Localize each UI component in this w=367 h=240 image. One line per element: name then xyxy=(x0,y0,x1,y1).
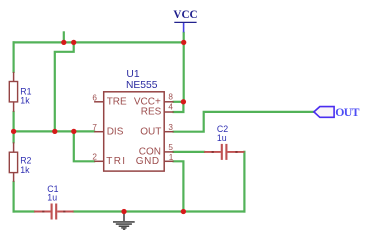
svg-text:DIS: DIS xyxy=(107,126,124,137)
svg-text:NE555: NE555 xyxy=(126,80,158,91)
svg-text:4: 4 xyxy=(168,103,173,112)
svg-text:1k: 1k xyxy=(20,95,30,105)
svg-text:3: 3 xyxy=(168,123,173,132)
svg-text:1k: 1k xyxy=(20,165,30,175)
svg-text:TRI: TRI xyxy=(106,156,126,167)
svg-text:GND: GND xyxy=(136,156,160,167)
svg-text:6: 6 xyxy=(92,94,97,103)
svg-text:RES: RES xyxy=(141,107,162,118)
svg-text:VCC: VCC xyxy=(173,9,197,21)
svg-text:5: 5 xyxy=(168,143,173,152)
svg-text:1u: 1u xyxy=(217,133,227,143)
svg-text:2: 2 xyxy=(92,153,97,162)
svg-text:1: 1 xyxy=(169,153,174,162)
svg-text:1u: 1u xyxy=(47,193,57,203)
svg-text:OUT: OUT xyxy=(335,105,359,119)
svg-text:7: 7 xyxy=(92,123,97,132)
svg-text:OUT: OUT xyxy=(140,126,161,137)
svg-text:U1: U1 xyxy=(126,69,139,80)
svg-text:TRE: TRE xyxy=(107,97,127,108)
svg-text:8: 8 xyxy=(168,93,173,102)
